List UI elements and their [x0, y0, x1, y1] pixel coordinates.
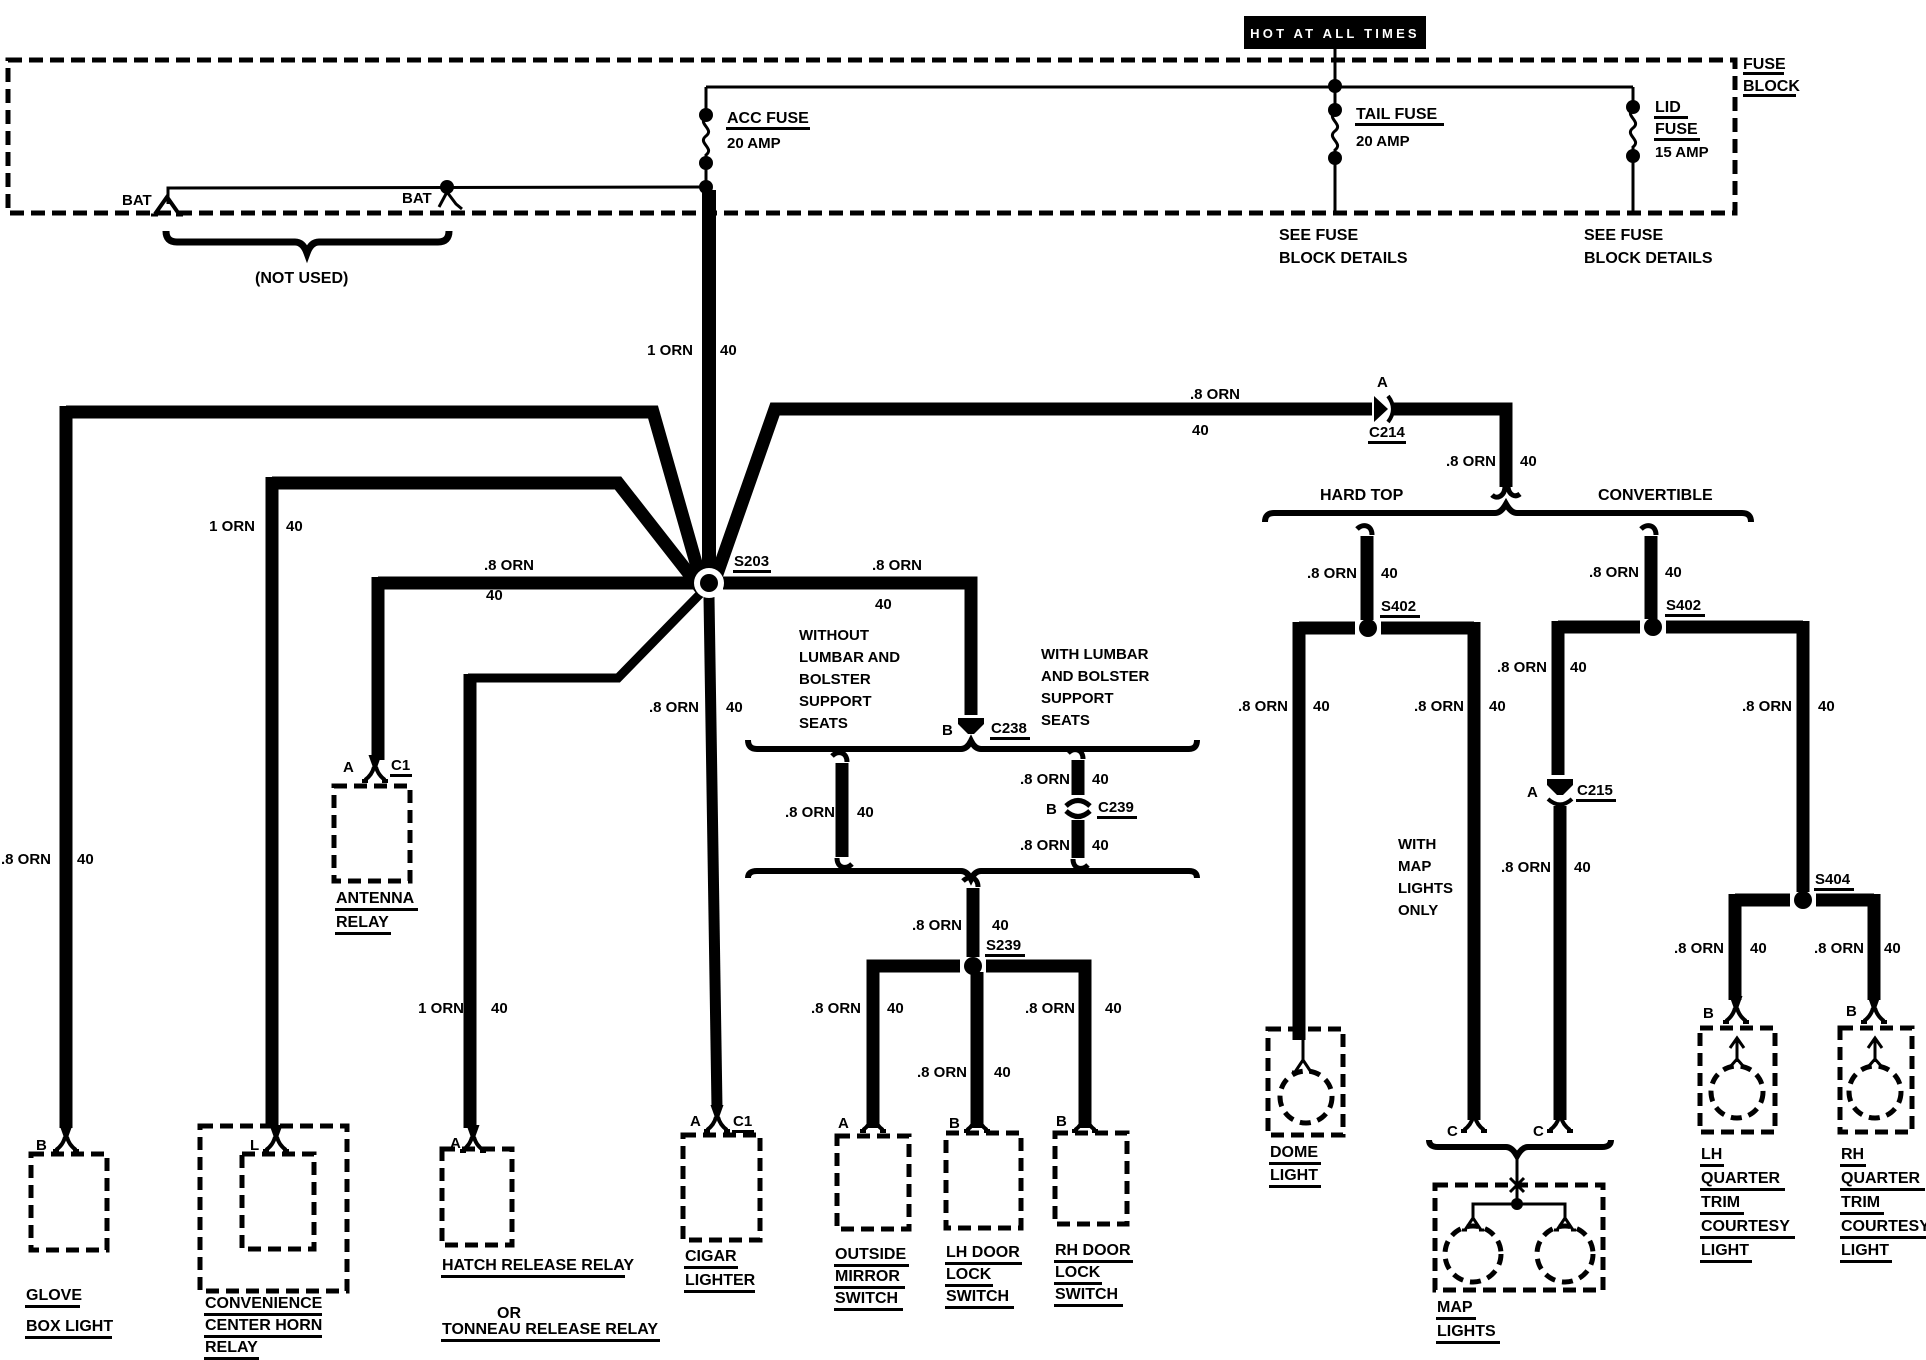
- LID fuse: [1626, 87, 1640, 213]
- wire S203 to antenna relay: [378, 577, 695, 760]
- svg-text:BAT: BAT: [402, 190, 432, 207]
- svg-text:.8 ORN: .8 ORN: [917, 1064, 967, 1081]
- svg-text:40: 40: [1489, 698, 1506, 715]
- svg-text:40: 40: [720, 342, 737, 359]
- LH quarter light box: [1700, 1028, 1775, 1132]
- S402 hard top label: [1380, 598, 1420, 617]
- svg-text:CONVERTIBLE: CONVERTIBLE: [1598, 487, 1713, 504]
- wire S402 to dome light: [1293, 622, 1306, 1040]
- svg-text:C214: C214: [1369, 424, 1406, 441]
- svg-text:20 AMP: 20 AMP: [727, 135, 781, 152]
- svg-text:WITH: WITH: [1398, 836, 1436, 853]
- wire S203 to C238: [723, 583, 971, 715]
- S402 convertible horizontal wire: [1558, 621, 1803, 634]
- svg-text:.8 ORN: .8 ORN: [811, 1000, 861, 1017]
- svg-text:COURTESY: COURTESY: [1701, 1218, 1790, 1235]
- svg-text:TRIM: TRIM: [1701, 1194, 1740, 1211]
- svg-text:C239: C239: [1098, 799, 1134, 816]
- svg-text:SUPPORT: SUPPORT: [1041, 690, 1114, 707]
- dome light terminal: [1292, 1049, 1314, 1072]
- svg-text:TONNEAU RELEASE RELAY: TONNEAU RELEASE RELAY: [442, 1321, 658, 1338]
- connector C239: [1066, 801, 1090, 817]
- svg-text:40: 40: [1092, 771, 1109, 788]
- C214 label: [1368, 424, 1406, 443]
- map lights box: [1435, 1185, 1603, 1290]
- cigar lighter label: [684, 1248, 756, 1292]
- RH quarter wire label .8 ORN 40: [1814, 940, 1901, 957]
- LH door wire label .8 ORN 40: [917, 1064, 1011, 1081]
- C239 label: [1097, 799, 1137, 818]
- svg-text:40: 40: [1313, 698, 1330, 715]
- with-seats option wire upper: [1072, 760, 1085, 795]
- svg-text:RH DOOR: RH DOOR: [1055, 1242, 1131, 1259]
- S402 convertible label: [1665, 597, 1705, 616]
- dome light bulb: [1280, 1071, 1332, 1123]
- seat options brace lower: [748, 871, 1197, 879]
- convertible branch wire to S402: [1641, 526, 1656, 619]
- antenna relay label: [335, 890, 418, 934]
- svg-text:40: 40: [491, 1000, 508, 1017]
- svg-text:SEE FUSE: SEE FUSE: [1584, 227, 1663, 244]
- hard top branch wire to S402: [1357, 526, 1372, 620]
- S203 splice node: [694, 568, 724, 598]
- svg-text:S402: S402: [1381, 598, 1416, 615]
- svg-text:40: 40: [726, 699, 743, 716]
- brace-S239 wire label .8 ORN 40: [912, 917, 1009, 934]
- svg-text:MIRROR: MIRROR: [835, 1268, 900, 1285]
- RH quarter light box: [1840, 1028, 1912, 1132]
- svg-text:1 ORN: 1 ORN: [647, 342, 693, 359]
- svg-text:WITH LUMBAR: WITH LUMBAR: [1041, 646, 1149, 663]
- C238 label: [990, 720, 1030, 739]
- C238 wire label .8 ORN / 40: [872, 557, 922, 613]
- with-seats option wire lower: [1072, 820, 1085, 858]
- svg-text:C215: C215: [1577, 782, 1613, 799]
- svg-text:QUARTER: QUARTER: [1841, 1170, 1921, 1187]
- wire S402 convertible to C215: [1552, 621, 1565, 775]
- see fuse block details (right): [1584, 227, 1713, 267]
- svg-text:.8 ORN: .8 ORN: [1674, 940, 1724, 957]
- map lights brace: [1429, 1140, 1611, 1156]
- svg-text:A: A: [343, 759, 354, 776]
- svg-text:A: A: [690, 1113, 701, 1130]
- svg-text:CENTER HORN: CENTER HORN: [205, 1317, 322, 1334]
- hard top map wire label .8 ORN 40: [1414, 698, 1506, 715]
- antenna relay box: [334, 786, 410, 881]
- svg-text:40: 40: [887, 1000, 904, 1017]
- map lights bulb terminal left: [1462, 1207, 1484, 1230]
- LH door lock switch terminal B: [964, 1105, 990, 1131]
- connector C215: [1547, 779, 1573, 805]
- svg-text:LIGHTS: LIGHTS: [1398, 880, 1453, 897]
- svg-text:LOCK: LOCK: [946, 1266, 992, 1283]
- LH quarter wire label .8 ORN 40: [1674, 940, 1767, 957]
- svg-text:40: 40: [77, 851, 94, 868]
- svg-text:40: 40: [1884, 940, 1901, 957]
- wire S239 to outside mirror switch: [873, 966, 960, 1128]
- convenience relay label: [204, 1295, 323, 1359]
- svg-text:RELAY: RELAY: [336, 914, 389, 931]
- LH door lock switch label: [945, 1244, 1022, 1308]
- svg-text:ANTENNA: ANTENNA: [336, 890, 415, 907]
- svg-text:COURTESY: COURTESY: [1841, 1218, 1926, 1235]
- with map lights only text: [1398, 836, 1453, 919]
- curl end of C214 wire: [1492, 486, 1520, 497]
- main feed wire ACC fuse to S203: [702, 190, 716, 570]
- svg-text:S239: S239: [986, 937, 1021, 954]
- wire C214 to hardtop/convertible brace: [1394, 409, 1506, 487]
- RH quarter light bulb: [1849, 1066, 1901, 1118]
- svg-text:BLOCK DETAILS: BLOCK DETAILS: [1584, 250, 1713, 267]
- LH door lock switch box: [946, 1133, 1021, 1228]
- svg-text:BLOCK: BLOCK: [1743, 78, 1800, 95]
- map lights crossing mark: [1510, 1178, 1524, 1192]
- glove box wire label .8 ORN 40: [1, 851, 94, 868]
- svg-text:40: 40: [1574, 859, 1591, 876]
- svg-text:.8 ORN: .8 ORN: [1501, 859, 1551, 876]
- svg-text:LIGHTER: LIGHTER: [685, 1272, 756, 1289]
- map lights junction dot: [1511, 1198, 1523, 1210]
- BAT terminal 1 (not used): [151, 197, 183, 215]
- dome light internal lead: [1302, 1040, 1305, 1056]
- svg-text:40: 40: [1092, 837, 1109, 854]
- svg-text:.8 ORN: .8 ORN: [1025, 1000, 1075, 1017]
- svg-text:40: 40: [994, 1064, 1011, 1081]
- wire S402 convertible to S404: [1797, 621, 1810, 892]
- svg-text:CONVENIENCE: CONVENIENCE: [205, 1295, 323, 1312]
- wire S404 to RH quarter light: [1868, 894, 1881, 1000]
- fuse block dashed border: [8, 60, 1735, 213]
- svg-text:.8 ORN: .8 ORN: [649, 699, 699, 716]
- map lights feed lead: [1516, 1157, 1519, 1200]
- svg-text:.8 ORN: .8 ORN: [872, 557, 922, 574]
- seat options brace upper: [748, 740, 1197, 749]
- not-used brace: [166, 231, 449, 253]
- ACC fuse: [699, 87, 713, 187]
- with-seats upper label .8 ORN 40: [1020, 771, 1109, 788]
- svg-text:40: 40: [875, 596, 892, 613]
- svg-text:GLOVE: GLOVE: [26, 1287, 82, 1304]
- svg-text:C1: C1: [733, 1113, 752, 1130]
- svg-text:.8 ORN: .8 ORN: [1814, 940, 1864, 957]
- convenience relay terminal L: [263, 1125, 289, 1151]
- BAT terminal 2: [439, 180, 462, 209]
- svg-text:SEATS: SEATS: [799, 715, 848, 732]
- map lights bulb right: [1537, 1226, 1593, 1282]
- LH quarter terminal B: [1723, 996, 1749, 1022]
- svg-text:DOME: DOME: [1270, 1144, 1318, 1161]
- wire S239 to LH door lock switch: [971, 972, 984, 1128]
- wire S404 to LH quarter light: [1729, 894, 1742, 1000]
- svg-text:B: B: [949, 1115, 960, 1132]
- wire S203 to convenience center horn relay: [272, 477, 701, 1128]
- svg-text:B: B: [942, 722, 953, 739]
- RH door lock switch box: [1055, 1133, 1127, 1224]
- svg-text:C238: C238: [991, 720, 1027, 737]
- map lights bulb terminal right: [1554, 1207, 1576, 1230]
- svg-text:QUARTER: QUARTER: [1701, 1170, 1781, 1187]
- BAT feed thin wire: [168, 187, 706, 204]
- map lights bulb left: [1445, 1226, 1501, 1282]
- svg-text:C1: C1: [391, 757, 410, 774]
- mirror wire label .8 ORN 40: [811, 1000, 904, 1017]
- svg-text:ACC FUSE: ACC FUSE: [727, 110, 809, 127]
- ACC fuse junction node: [699, 180, 713, 194]
- wire from HOT AT ALL TIMES into fuse block: [1334, 49, 1337, 86]
- convertible branch label .8 ORN 40: [1589, 564, 1682, 581]
- svg-text:LIGHT: LIGHT: [1701, 1242, 1749, 1259]
- C215 lower label .8 ORN 40: [1501, 859, 1591, 876]
- svg-text:LID: LID: [1655, 99, 1681, 116]
- connector C214: [1374, 396, 1393, 422]
- svg-text:.8 ORN: .8 ORN: [1414, 698, 1464, 715]
- svg-text:LH: LH: [1701, 1146, 1722, 1163]
- without-seats wire label .8 ORN 40: [785, 804, 874, 821]
- svg-text:LIGHTS: LIGHTS: [1437, 1323, 1496, 1340]
- outside mirror switch terminal A: [860, 1105, 886, 1131]
- svg-text:15 AMP: 15 AMP: [1655, 144, 1709, 161]
- svg-text:C: C: [1447, 1123, 1458, 1140]
- svg-text:(NOT USED): (NOT USED): [255, 270, 348, 287]
- S402 convertible splice node: [1644, 618, 1662, 636]
- svg-text:CIGAR: CIGAR: [685, 1248, 737, 1265]
- svg-text:SWITCH: SWITCH: [1055, 1286, 1118, 1303]
- svg-text:40: 40: [1818, 698, 1835, 715]
- cigar wire label .8 ORN 40: [649, 699, 743, 716]
- wire S203 to C214: [716, 409, 1372, 577]
- convenience relay inner box: [242, 1154, 314, 1249]
- TAIL fuse label: [1355, 106, 1444, 150]
- svg-text:SEE FUSE: SEE FUSE: [1279, 227, 1358, 244]
- convenience relay outer box: [200, 1126, 347, 1291]
- hot-at-all-times label box: [1244, 16, 1426, 49]
- bus wire inside fuse block (thin, y=86): [706, 86, 1633, 89]
- TAIL fuse: [1328, 86, 1342, 213]
- svg-text:HARD TOP: HARD TOP: [1320, 487, 1404, 504]
- svg-text:.8 ORN: .8 ORN: [785, 804, 835, 821]
- LH quarter light bulb: [1711, 1066, 1763, 1118]
- svg-text:ONLY: ONLY: [1398, 902, 1438, 919]
- svg-text:FUSE: FUSE: [1655, 121, 1698, 138]
- svg-text:LUMBAR AND: LUMBAR AND: [799, 649, 900, 666]
- svg-text:B: B: [1846, 1003, 1857, 1020]
- without lumbar text: [799, 627, 900, 732]
- svg-text:SEATS: SEATS: [1041, 712, 1090, 729]
- svg-text:B: B: [1056, 1113, 1067, 1130]
- svg-text:S402: S402: [1666, 597, 1701, 614]
- svg-text:.8 ORN: .8 ORN: [1020, 771, 1070, 788]
- svg-text:HOT AT ALL TIMES: HOT AT ALL TIMES: [1250, 26, 1420, 41]
- wire S203 to hatch release relay: [468, 592, 702, 678]
- S239 label: [985, 937, 1025, 956]
- svg-text:40: 40: [286, 518, 303, 535]
- ACC fuse label: [726, 110, 810, 152]
- svg-text:BLOCK DETAILS: BLOCK DETAILS: [1279, 250, 1408, 267]
- svg-text:HATCH RELEASE RELAY: HATCH RELEASE RELAY: [442, 1257, 634, 1274]
- S402 hard top splice node: [1359, 619, 1377, 637]
- S404 horizontal wire: [1735, 894, 1874, 907]
- map lights label: [1436, 1299, 1500, 1343]
- svg-text:.8 ORN: .8 ORN: [1497, 659, 1547, 676]
- svg-text:BOLSTER: BOLSTER: [799, 671, 871, 688]
- S203 label: [733, 553, 771, 572]
- svg-text:OUTSIDE: OUTSIDE: [835, 1246, 906, 1263]
- RH quarter light arrow terminal: [1868, 1038, 1882, 1067]
- svg-text:A: A: [838, 1115, 849, 1132]
- hatch wire label 1 ORN 40: [418, 1000, 508, 1017]
- hatch release relay label: [441, 1257, 660, 1341]
- svg-text:40: 40: [1570, 659, 1587, 676]
- svg-text:S404: S404: [1815, 871, 1851, 888]
- svg-text:LIGHT: LIGHT: [1270, 1167, 1318, 1184]
- wire S203 to cigar lighter: [709, 597, 717, 1108]
- svg-text:TRIM: TRIM: [1841, 1194, 1880, 1211]
- svg-text:TAIL FUSE: TAIL FUSE: [1356, 106, 1438, 123]
- junction node at tail fuse feed: [1328, 79, 1342, 93]
- svg-text:RH: RH: [1841, 1146, 1864, 1163]
- svg-text:L: L: [250, 1137, 259, 1154]
- hard top branch label .8 ORN 40: [1307, 565, 1398, 582]
- wire C215 to map lights C: [1554, 806, 1567, 1120]
- svg-text:1 ORN: 1 ORN: [418, 1000, 464, 1017]
- svg-text:SUPPORT: SUPPORT: [799, 693, 872, 710]
- glove box light box: [31, 1154, 107, 1250]
- wire S203 to glove box light: [66, 406, 700, 1128]
- cigar lighter box: [683, 1135, 760, 1240]
- dome light box: [1268, 1029, 1343, 1135]
- svg-text:1 ORN: 1 ORN: [209, 518, 255, 535]
- svg-text:.8 ORN: .8 ORN: [1, 851, 51, 868]
- svg-text:SWITCH: SWITCH: [946, 1288, 1009, 1305]
- outside mirror switch box: [837, 1136, 909, 1229]
- svg-text:C: C: [1533, 1123, 1544, 1140]
- svg-text:RELAY: RELAY: [205, 1339, 258, 1356]
- hatch release relay box: [442, 1149, 512, 1245]
- main feed wire label 1 ORN 40: [647, 342, 737, 359]
- svg-text:20 AMP: 20 AMP: [1356, 133, 1410, 150]
- outside mirror switch label: [834, 1246, 909, 1310]
- C215 label: [1576, 782, 1616, 801]
- map lights C terminal right: [1547, 1105, 1573, 1131]
- svg-text:B: B: [1703, 1005, 1714, 1022]
- svg-text:40: 40: [992, 917, 1009, 934]
- antenna wire label .8 ORN / 40: [484, 557, 534, 604]
- connector C238 (fat down arrow): [958, 718, 984, 734]
- svg-text:BOX LIGHT: BOX LIGHT: [26, 1318, 113, 1335]
- S402 hard top horizontal wire: [1299, 622, 1474, 635]
- svg-text:.8 ORN: .8 ORN: [484, 557, 534, 574]
- S239 splice node: [964, 957, 982, 975]
- RH door wire label .8 ORN 40: [1025, 1000, 1122, 1017]
- svg-text:.8 ORN: .8 ORN: [1020, 837, 1070, 854]
- svg-text:SWITCH: SWITCH: [835, 1290, 898, 1307]
- antenna relay terminal A: [362, 755, 388, 781]
- RH door lock switch label: [1054, 1242, 1133, 1306]
- wire S402 hard top to map lights C: [1468, 622, 1481, 1120]
- cigar pin C1 label: [732, 1113, 754, 1132]
- svg-text:.8 ORN: .8 ORN: [1190, 386, 1240, 403]
- fuse block label: [1743, 56, 1800, 96]
- svg-text:.8 ORN: .8 ORN: [1238, 698, 1288, 715]
- LH quarter light label: [1700, 1146, 1795, 1262]
- hatch release relay terminal A: [460, 1125, 486, 1151]
- svg-text:MAP: MAP: [1398, 858, 1431, 875]
- svg-text:40: 40: [1665, 564, 1682, 581]
- C214 drop label .8 ORN 40: [1446, 453, 1537, 470]
- antenna pin C1 label: [390, 757, 412, 776]
- svg-text:AND BOLSTER: AND BOLSTER: [1041, 668, 1150, 685]
- cigar lighter terminal A: [704, 1105, 730, 1131]
- svg-text:LOCK: LOCK: [1055, 1264, 1101, 1281]
- svg-text:40: 40: [486, 587, 503, 604]
- C215 wire label .8 ORN 40: [1497, 659, 1587, 676]
- LID fuse label: [1654, 99, 1709, 161]
- glove box light terminal B: [53, 1125, 79, 1151]
- svg-text:.8 ORN: .8 ORN: [1446, 453, 1496, 470]
- wire brace to S239: [963, 878, 978, 957]
- wire S239 to RH door lock switch: [986, 966, 1085, 1128]
- LH quarter light arrow terminal: [1730, 1038, 1744, 1067]
- dome wire label .8 ORN 40: [1238, 698, 1330, 715]
- S404 label: [1814, 871, 1854, 890]
- dome light label: [1269, 1144, 1321, 1187]
- svg-text:LH DOOR: LH DOOR: [946, 1244, 1020, 1261]
- RH quarter terminal B: [1861, 996, 1887, 1022]
- svg-text:40: 40: [1381, 565, 1398, 582]
- svg-text:A: A: [1377, 374, 1388, 391]
- svg-text:.8 ORN: .8 ORN: [912, 917, 962, 934]
- svg-text:FUSE: FUSE: [1743, 56, 1786, 73]
- svg-text:40: 40: [857, 804, 874, 821]
- svg-text:BAT: BAT: [122, 192, 152, 209]
- svg-text:MAP: MAP: [1437, 1299, 1473, 1316]
- svg-text:LIGHT: LIGHT: [1841, 1242, 1889, 1259]
- glove box light label: [25, 1287, 113, 1338]
- svg-text:WITHOUT: WITHOUT: [799, 627, 869, 644]
- C214 wire label .8 ORN / 40: [1190, 386, 1240, 439]
- svg-text:OR: OR: [497, 1305, 521, 1322]
- svg-text:A: A: [1527, 784, 1538, 801]
- map lights C terminal left: [1461, 1105, 1487, 1131]
- svg-text:B: B: [36, 1137, 47, 1154]
- svg-text:B: B: [1046, 801, 1057, 818]
- with-seats lower label .8 ORN 40: [1020, 837, 1109, 854]
- svg-text:.8 ORN: .8 ORN: [1307, 565, 1357, 582]
- svg-text:.8 ORN: .8 ORN: [1742, 698, 1792, 715]
- svg-text:40: 40: [1750, 940, 1767, 957]
- with lumbar text: [1041, 646, 1150, 729]
- S404 splice node: [1794, 891, 1812, 909]
- map lights internal wiring: [1473, 1204, 1565, 1214]
- svg-text:40: 40: [1520, 453, 1537, 470]
- svg-text:40: 40: [1105, 1000, 1122, 1017]
- convenience wire label 1 ORN 40: [209, 518, 303, 535]
- without-seats option wire: [832, 753, 852, 868]
- see fuse block details (left): [1279, 227, 1408, 267]
- svg-text:S203: S203: [734, 553, 769, 570]
- hardtop/convertible brace: [1265, 504, 1751, 522]
- svg-text:40: 40: [1192, 422, 1209, 439]
- RH quarter light label: [1840, 1146, 1926, 1262]
- RH door lock switch terminal B: [1072, 1105, 1098, 1131]
- svg-text:.8 ORN: .8 ORN: [1589, 564, 1639, 581]
- S404 wire label .8 ORN 40: [1742, 698, 1835, 715]
